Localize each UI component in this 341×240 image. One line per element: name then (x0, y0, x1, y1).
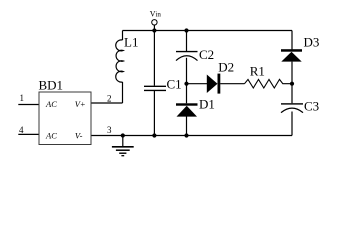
svg-text:L1: L1 (124, 35, 138, 50)
svg-text:D2: D2 (218, 60, 234, 75)
svg-text:4: 4 (19, 125, 24, 135)
svg-text:V-: V- (75, 131, 83, 141)
svg-text:C1: C1 (167, 76, 182, 91)
svg-text:Vin: Vin (150, 9, 162, 18)
svg-text:1: 1 (20, 93, 25, 103)
svg-text:3: 3 (107, 125, 112, 135)
svg-text:2: 2 (107, 94, 112, 104)
svg-text:BD1: BD1 (39, 78, 64, 93)
svg-text:D1: D1 (199, 96, 215, 111)
svg-text:C3: C3 (304, 99, 319, 114)
svg-text:C2: C2 (199, 47, 214, 62)
svg-text:D3: D3 (304, 34, 320, 49)
svg-text:R1: R1 (250, 64, 265, 79)
svg-text:AC: AC (45, 99, 57, 109)
svg-text:V+: V+ (75, 99, 86, 109)
svg-text:AC: AC (45, 131, 57, 141)
